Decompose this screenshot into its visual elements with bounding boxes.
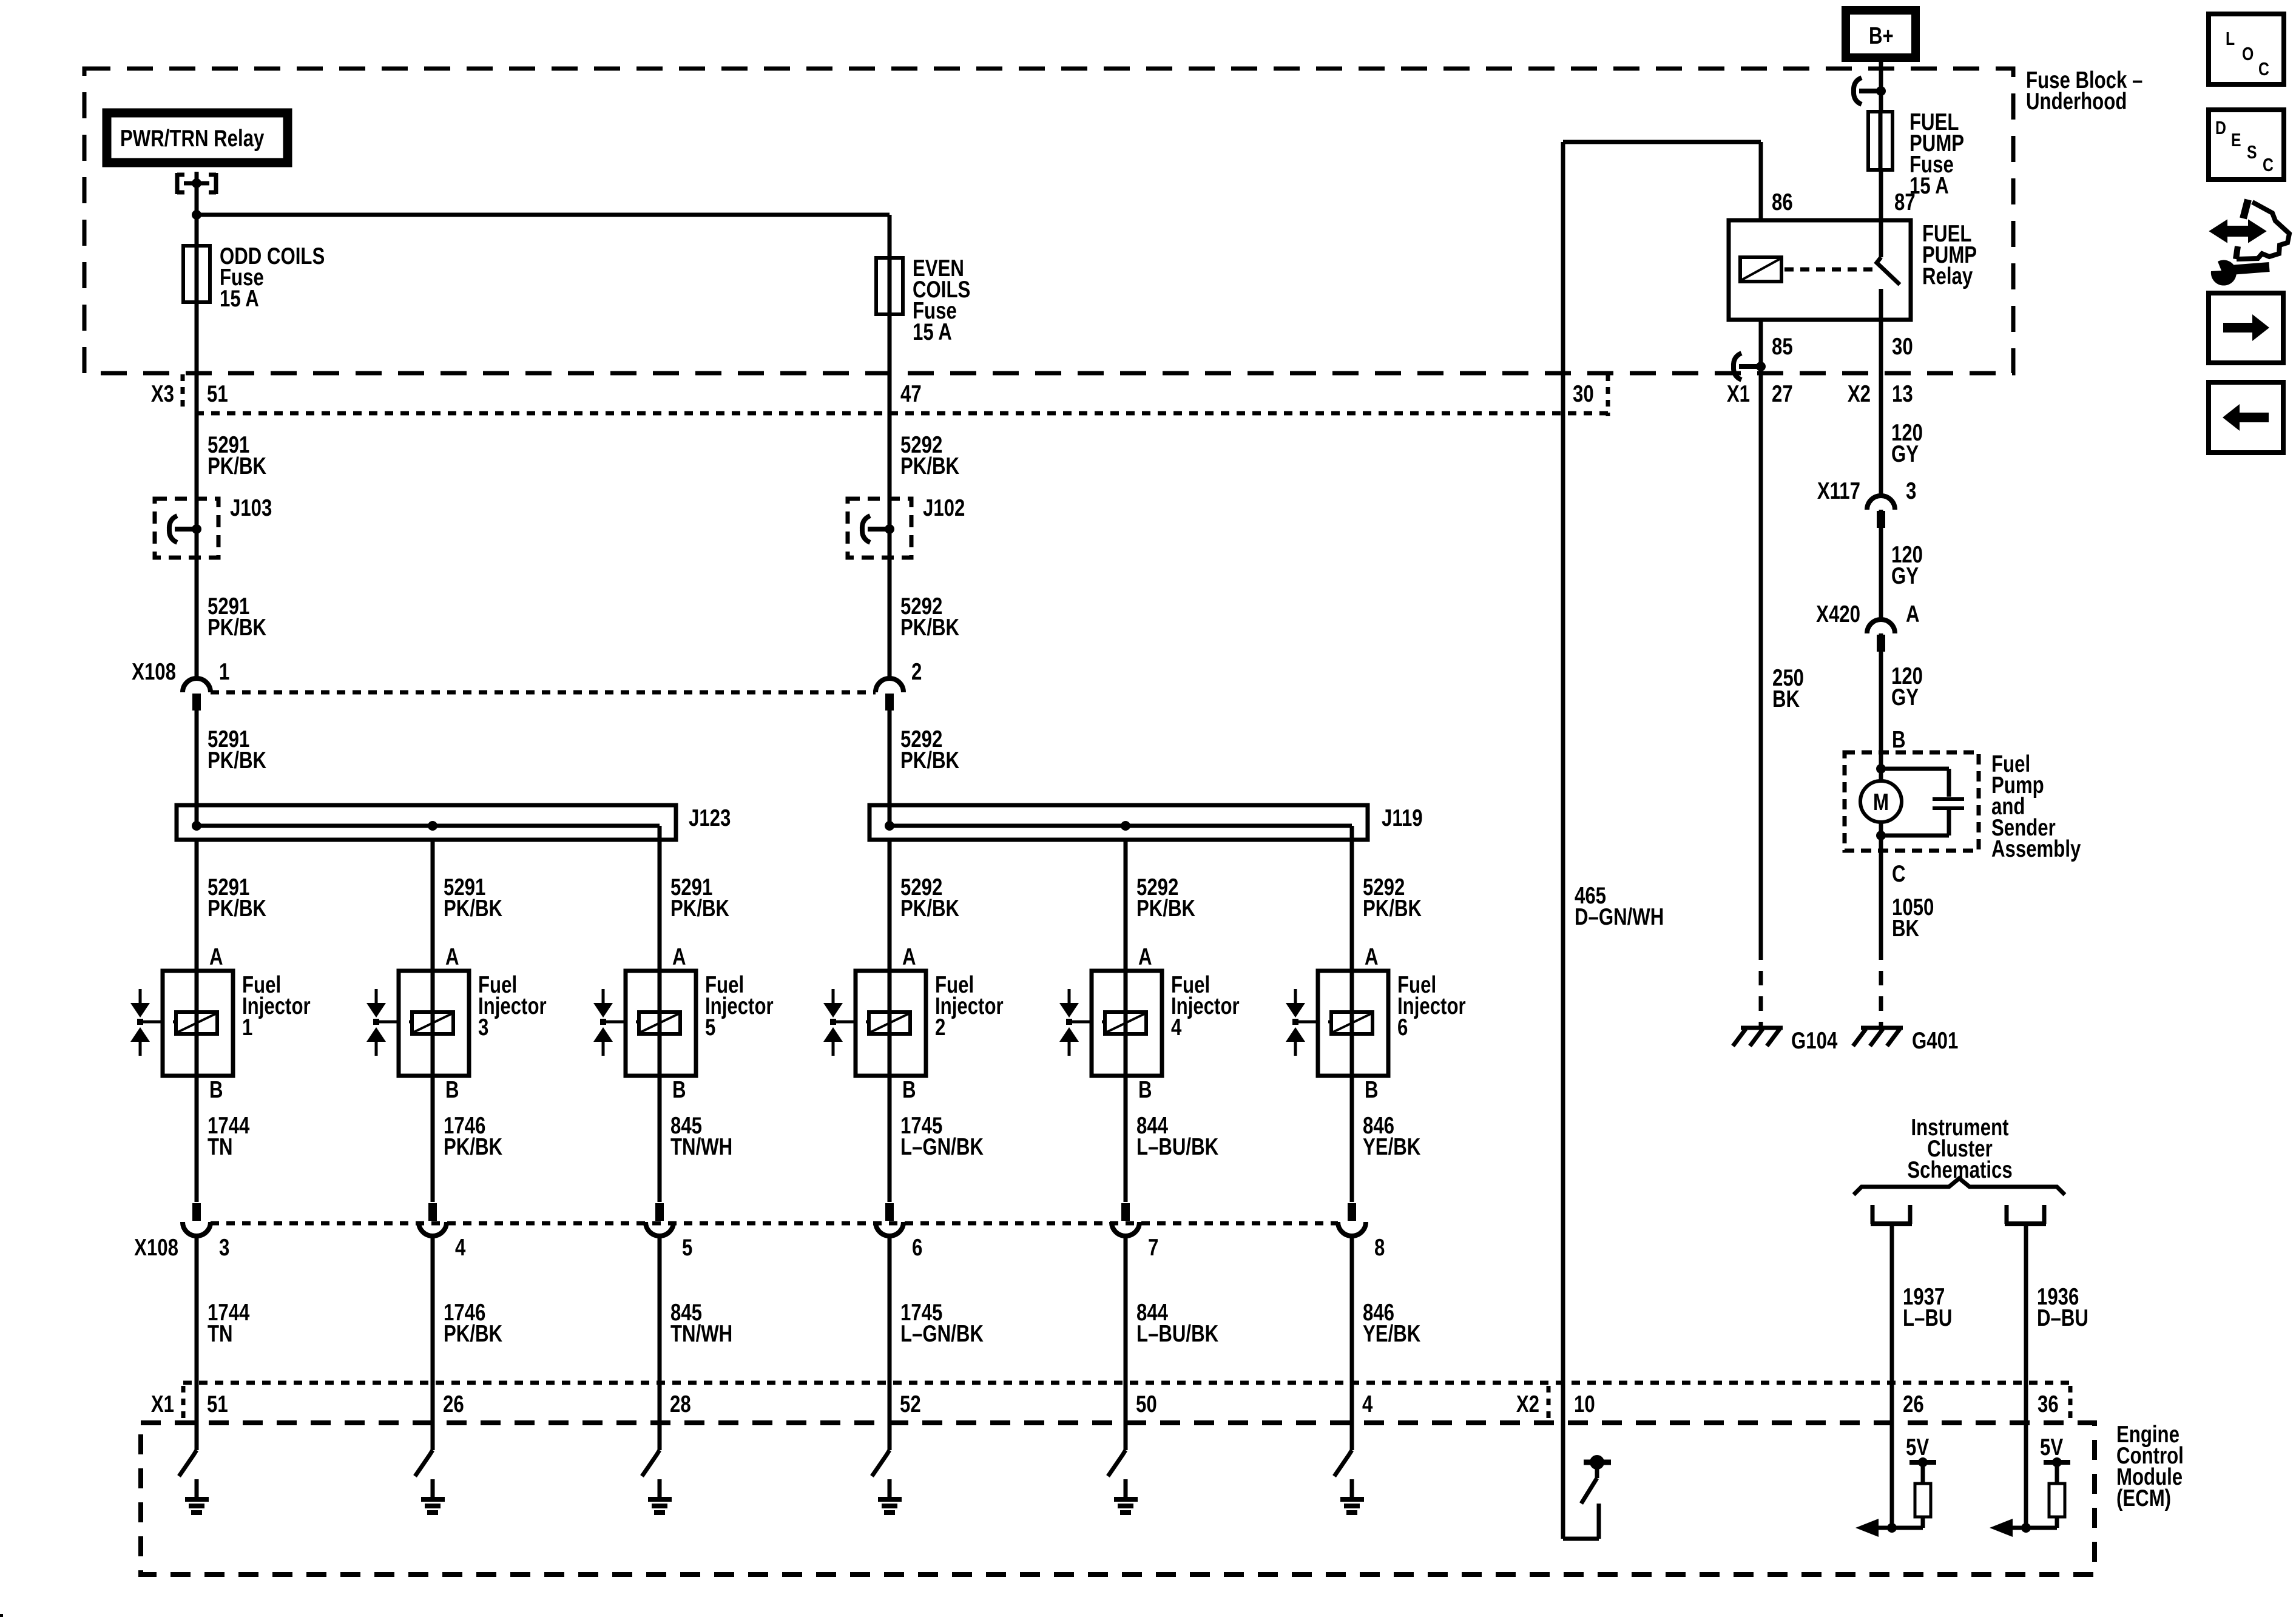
svg-text:52: 52 xyxy=(900,1391,921,1417)
ground lead dashes G401 xyxy=(1879,971,1883,1027)
PWR/TRN relay coil terminal xyxy=(175,173,180,194)
svg-text:8: 8 xyxy=(1374,1235,1385,1261)
svg-text:87: 87 xyxy=(1894,189,1916,215)
svg-text:TN/WH: TN/WH xyxy=(670,1134,732,1160)
fuel injector 5 coil xyxy=(639,1012,680,1034)
svg-text:28: 28 xyxy=(670,1391,691,1417)
svg-text:L–BU/BK: L–BU/BK xyxy=(1136,1134,1219,1160)
svg-text:B: B xyxy=(209,1077,223,1103)
ECM driver switch 6 xyxy=(1334,1450,1352,1476)
svg-text:J123: J123 xyxy=(689,805,731,831)
wire J119 drop inj6 xyxy=(1350,826,1354,840)
icon forward arrow box xyxy=(2209,293,2283,363)
wire splice to injector 5 xyxy=(658,840,662,971)
connector bump X108-5 xyxy=(646,1222,674,1236)
svg-text:13: 13 xyxy=(1892,381,1913,407)
svg-text:M: M xyxy=(1873,789,1889,815)
svg-text:X1: X1 xyxy=(151,1391,174,1417)
relay actuation dashed link xyxy=(1784,268,1872,272)
svg-text:B: B xyxy=(1365,1077,1379,1103)
relay switch lower contact xyxy=(1879,289,1883,373)
svg-text:X2: X2 xyxy=(1516,1391,1539,1417)
relay coil diagonal xyxy=(1742,259,1780,280)
ground symbol ECM driver 1 xyxy=(195,1479,199,1497)
fuel injector 5 wire through xyxy=(658,971,662,1076)
ground G104 xyxy=(1741,1026,1783,1030)
svg-text:27: 27 xyxy=(1772,381,1793,407)
icon back arrow xyxy=(2223,404,2269,431)
svg-text:O: O xyxy=(2242,43,2254,64)
svg-text:Relay: Relay xyxy=(1922,263,1973,289)
svg-text:J103: J103 xyxy=(230,495,272,521)
brace instrument cluster xyxy=(1854,1178,2065,1195)
fuel injector 4 wire through xyxy=(1124,971,1128,1076)
svg-text:15 A: 15 A xyxy=(913,319,952,345)
relay FUEL PUMP box xyxy=(1729,220,1911,320)
capacitor plates xyxy=(1933,797,1964,801)
connector bump X108-8 xyxy=(1338,1222,1366,1236)
wire J123 drop inj5 xyxy=(658,826,662,840)
wire splice to injector 1 xyxy=(195,840,199,971)
tick after 30 xyxy=(1606,374,1610,416)
svg-text:A: A xyxy=(209,944,223,970)
wire X108-2 to J119 xyxy=(888,711,892,826)
svg-text:3: 3 xyxy=(219,1235,229,1261)
svg-text:7: 7 xyxy=(1148,1235,1158,1261)
wire X108 to ECM pin 52 xyxy=(888,1236,892,1450)
fuel injector 4 body xyxy=(1092,971,1162,1076)
motor M circle xyxy=(1860,781,1902,822)
wire PWR/TRN to junction xyxy=(195,183,199,215)
ECM pin dotted line xyxy=(183,1381,2070,1385)
svg-text:L–GN/BK: L–GN/BK xyxy=(900,1321,984,1347)
svg-text:J119: J119 xyxy=(1382,805,1423,831)
connector bump X117 xyxy=(1867,496,1895,510)
wire splice to injector 3 xyxy=(431,840,435,971)
svg-text:26: 26 xyxy=(1903,1391,1924,1417)
tick X3 xyxy=(181,374,185,412)
svg-text:15 A: 15 A xyxy=(1909,173,1949,199)
svg-text:1: 1 xyxy=(242,1014,252,1041)
icon LOC box xyxy=(2209,14,2284,84)
wire 5291 fuse to X108 xyxy=(195,302,199,678)
svg-text:50: 50 xyxy=(1136,1391,1157,1417)
wire injector 5 to X108 xyxy=(658,1076,662,1202)
terminal clip J103 xyxy=(169,516,177,542)
relay switch lever xyxy=(1879,220,1883,257)
wire 1050 BK to ground xyxy=(1879,851,1883,960)
svg-text:PK/BK: PK/BK xyxy=(444,1321,502,1347)
svg-text:PK/BK: PK/BK xyxy=(670,896,729,922)
terminal clip at relay pin 85 xyxy=(1734,353,1741,380)
splice J102 box xyxy=(848,499,911,558)
icon DESC box xyxy=(2209,110,2284,180)
svg-text:26: 26 xyxy=(443,1391,464,1417)
ground symbol ECM driver 6 xyxy=(1350,1479,1354,1497)
svg-text:L–BU/BK: L–BU/BK xyxy=(1136,1321,1219,1347)
wire fuse to relay pin 87 xyxy=(1879,170,1883,220)
svg-text:D: D xyxy=(2215,117,2226,138)
wire X420 to fuel pump xyxy=(1879,653,1883,782)
svg-text:PK/BK: PK/BK xyxy=(1363,896,1422,922)
fuel injector 5 valve symbol xyxy=(602,989,605,1003)
svg-text:3: 3 xyxy=(1906,478,1916,504)
icon forward arrow xyxy=(2223,314,2269,341)
svg-text:PWR/TRN Relay: PWR/TRN Relay xyxy=(120,126,265,152)
wire X108 to ECM pin 51 xyxy=(195,1236,199,1450)
svg-text:X108: X108 xyxy=(132,659,176,685)
ground lead dashes G104 xyxy=(1759,971,1763,1027)
svg-text:BK: BK xyxy=(1892,916,1919,942)
svg-text:L–BU: L–BU xyxy=(1903,1305,1952,1331)
connector row dotted line X3 xyxy=(195,411,1608,416)
svg-text:A: A xyxy=(1906,601,1920,627)
fuel injector 1 coil diagonal xyxy=(178,1014,215,1032)
svg-text:PK/BK: PK/BK xyxy=(208,896,266,922)
wire injector 6 to X108 xyxy=(1350,1076,1354,1202)
relay PWR/TRN label box xyxy=(107,113,288,163)
connector symbol cluster 1937 xyxy=(1871,1205,1875,1224)
svg-text:E: E xyxy=(2231,129,2241,150)
tick X2 ECM xyxy=(1547,1386,1551,1420)
connector bump X108-7 xyxy=(1112,1222,1140,1236)
fuse FUEL PUMP 15A xyxy=(1879,112,1883,170)
splice pack J119 box xyxy=(869,805,1368,840)
svg-text:47: 47 xyxy=(900,381,922,407)
wire injector 1 to X108 xyxy=(195,1076,199,1202)
junction dot odd/even feed xyxy=(192,210,201,220)
connector bump X108-2 xyxy=(876,678,903,692)
svg-text:5V: 5V xyxy=(2040,1434,2064,1460)
fuel injector 2 wire through xyxy=(888,971,892,1076)
fuel injector 3 wire through xyxy=(431,971,435,1076)
fuel injector 2 coil diagonal xyxy=(871,1014,908,1032)
svg-text:86: 86 xyxy=(1772,189,1793,215)
ECM fuel pump driver switch xyxy=(1584,1460,1611,1465)
fuse EVEN COILS 15A xyxy=(888,258,892,314)
fuel injector 2 body xyxy=(856,971,926,1076)
power terminal B+ box xyxy=(1846,10,1916,58)
wire 1936 D-BU xyxy=(2024,1224,2028,1528)
ground symbol ECM driver 5 xyxy=(658,1479,662,1497)
junction dot PWR/TRN output xyxy=(192,178,201,188)
svg-text:10: 10 xyxy=(1574,1391,1595,1417)
svg-text:2: 2 xyxy=(911,659,922,685)
wire 250 BK to ground xyxy=(1759,373,1763,960)
connector bump X108-4 xyxy=(419,1222,447,1236)
svg-text:D–GN/WH: D–GN/WH xyxy=(1575,904,1664,930)
svg-text:TN/WH: TN/WH xyxy=(670,1321,732,1347)
junction dot J119 inj4 xyxy=(1121,821,1130,831)
ECM driver switch 3 xyxy=(415,1450,433,1476)
svg-text:4: 4 xyxy=(1362,1391,1373,1417)
icon back arrow box xyxy=(2209,382,2283,453)
svg-text:BK: BK xyxy=(1772,686,1800,712)
icon wrench xyxy=(2211,260,2237,286)
svg-text:PK/BK: PK/BK xyxy=(1136,896,1195,922)
fuel injector 3 body xyxy=(399,971,469,1076)
fuel injector 6 coil xyxy=(1331,1012,1373,1034)
svg-text:A: A xyxy=(902,944,916,970)
wire B+ down to fuel pump fuse xyxy=(1879,58,1883,112)
wire injector 3 to X108 xyxy=(431,1076,435,1202)
svg-text:L–GN/BK: L–GN/BK xyxy=(900,1134,984,1160)
svg-text:X117: X117 xyxy=(1817,478,1860,504)
wire injector 2 to X108 xyxy=(888,1076,892,1202)
ECM driver switch 5 xyxy=(642,1450,660,1476)
terminal clip at B+ feed xyxy=(1854,78,1862,104)
wire junction to EVEN COILS drop xyxy=(197,213,890,217)
fuel injector 5 coil diagonal xyxy=(641,1014,678,1032)
ground G401 xyxy=(1861,1026,1903,1030)
svg-text:S: S xyxy=(2247,141,2257,162)
svg-text:PK/BK: PK/BK xyxy=(444,1134,502,1160)
fuse block underhood box xyxy=(84,69,2013,373)
svg-text:C: C xyxy=(2258,58,2269,79)
svg-text:1: 1 xyxy=(219,659,229,685)
svg-text:TN: TN xyxy=(208,1134,233,1160)
fuel injector 3 coil xyxy=(412,1012,453,1034)
wire splice to injector 2 xyxy=(888,840,892,971)
splice bus J123 xyxy=(197,824,660,828)
svg-text:G104: G104 xyxy=(1791,1028,1838,1054)
svg-text:Underhood: Underhood xyxy=(2026,89,2127,115)
svg-text:Assembly: Assembly xyxy=(1991,836,2081,862)
splice pack J123 box xyxy=(177,805,676,840)
wire splice to injector 6 xyxy=(1350,840,1354,971)
fuse ODD COILS 15A xyxy=(195,246,199,302)
svg-text:GY: GY xyxy=(1891,441,1919,467)
svg-text:A: A xyxy=(1365,944,1379,970)
svg-text:X1: X1 xyxy=(1727,381,1750,407)
ECM driver switch 1 xyxy=(179,1450,197,1476)
wire 120 GY fuse block to X117 xyxy=(1879,373,1883,678)
page corner speck xyxy=(0,1614,3,1617)
ECM box xyxy=(141,1423,2095,1575)
svg-text:TN: TN xyxy=(208,1321,233,1347)
fuel injector 1 wire through xyxy=(195,971,199,1076)
fuel injector 1 body xyxy=(163,971,233,1076)
svg-text:5: 5 xyxy=(682,1235,692,1261)
svg-text:L: L xyxy=(2226,28,2235,49)
svg-text:D–BU: D–BU xyxy=(2037,1305,2088,1331)
wire X108 to ECM pin 26 xyxy=(431,1236,435,1450)
wire pump top to capacitor xyxy=(1881,767,1949,771)
wire junction to ODD COILS fuse xyxy=(195,215,199,246)
fuel injector 1 coil xyxy=(176,1012,217,1034)
wire X108 to ECM pin 28 xyxy=(658,1236,662,1450)
ECM driver switch 2 xyxy=(872,1450,890,1476)
svg-text:B: B xyxy=(672,1077,686,1103)
wire X108 to ECM pin 50 xyxy=(1124,1236,1128,1450)
wire 1937 L-BU xyxy=(1890,1224,1894,1528)
fuel injector 3 coil diagonal xyxy=(414,1014,451,1032)
fuel injector 1 valve symbol xyxy=(139,989,142,1003)
svg-text:4: 4 xyxy=(1171,1014,1182,1041)
splice bus J119 xyxy=(890,824,1352,828)
svg-text:B: B xyxy=(445,1077,459,1103)
wire splice to injector 4 xyxy=(1124,840,1128,971)
svg-text:B: B xyxy=(1892,727,1906,753)
svg-text:B: B xyxy=(902,1077,916,1103)
svg-text:36: 36 xyxy=(2038,1391,2059,1417)
svg-text:PK/BK: PK/BK xyxy=(208,748,266,774)
wire pump bottom out xyxy=(1879,822,1883,851)
wire X108 to ECM pin 4 xyxy=(1350,1236,1354,1450)
svg-text:PK/BK: PK/BK xyxy=(444,896,502,922)
svg-text:85: 85 xyxy=(1772,334,1793,360)
svg-text:A: A xyxy=(1138,944,1152,970)
relay coil xyxy=(1740,257,1781,282)
svg-text:G401: G401 xyxy=(1912,1028,1958,1054)
wire capacitor to pump bottom xyxy=(1947,808,1951,836)
fuel injector 6 coil diagonal xyxy=(1333,1014,1371,1032)
tick after 36 ECM xyxy=(2068,1386,2073,1420)
svg-text:3: 3 xyxy=(478,1014,488,1041)
fuel pump assembly box xyxy=(1845,752,1979,851)
svg-text:51: 51 xyxy=(207,381,228,407)
svg-text:C: C xyxy=(2263,154,2274,175)
svg-text:PK/BK: PK/BK xyxy=(900,896,959,922)
svg-text:PK/BK: PK/BK xyxy=(900,453,959,479)
connector row dotted line X108 row1 xyxy=(211,690,876,695)
ground symbol ECM driver 3 xyxy=(431,1479,435,1497)
fuel injector 4 coil diagonal xyxy=(1107,1014,1144,1032)
svg-text:YE/BK: YE/BK xyxy=(1363,1321,1421,1347)
fuel injector 4 valve symbol xyxy=(1068,989,1071,1003)
ECM driver switch 4 xyxy=(1108,1450,1126,1476)
connector bump X108-6 xyxy=(876,1222,903,1236)
splice J103 box xyxy=(155,499,218,558)
ECM fuel pump driver contact hook xyxy=(1563,1537,1599,1541)
fuel injector 6 valve symbol xyxy=(1294,989,1297,1003)
svg-text:5: 5 xyxy=(705,1014,715,1041)
svg-text:PK/BK: PK/BK xyxy=(900,748,959,774)
junction dot J119 inj2 xyxy=(885,821,894,831)
fuel injector 6 wire through xyxy=(1350,971,1354,1076)
wire 465 feed corner to relay pin 86 xyxy=(1561,142,1565,373)
svg-text:30: 30 xyxy=(1573,381,1594,407)
svg-text:GY: GY xyxy=(1891,563,1919,589)
connector symbol cluster 1936 xyxy=(2005,1205,2009,1224)
svg-text:YE/BK: YE/BK xyxy=(1363,1134,1421,1160)
svg-text:PK/BK: PK/BK xyxy=(900,615,959,641)
svg-text:X420: X420 xyxy=(1816,601,1860,627)
svg-text:PK/BK: PK/BK xyxy=(208,615,266,641)
svg-text:6: 6 xyxy=(912,1235,922,1261)
wire injector 4 to X108 xyxy=(1124,1076,1128,1202)
junction dot J123 inj3 xyxy=(428,821,437,831)
wire X117 to X420 xyxy=(1879,529,1883,619)
wire relay pin 85 down xyxy=(1759,320,1763,373)
wire drop to EVEN COILS fuse xyxy=(888,215,892,258)
icon hand outline xyxy=(2243,200,2248,218)
wire 5292 fuse to X108 xyxy=(888,314,892,678)
tick X1 ECM xyxy=(181,1386,186,1420)
svg-text:C: C xyxy=(1892,861,1906,887)
wire 465 D-GN/WH block to ECM xyxy=(1561,373,1565,1539)
svg-text:PK/BK: PK/BK xyxy=(208,453,266,479)
svg-text:6: 6 xyxy=(1397,1014,1408,1041)
svg-text:GY: GY xyxy=(1891,684,1919,711)
ground symbol ECM driver 2 xyxy=(888,1479,892,1497)
svg-text:2: 2 xyxy=(935,1014,945,1041)
svg-text:X108: X108 xyxy=(134,1235,178,1261)
svg-text:B: B xyxy=(1138,1077,1152,1103)
fuel injector 2 valve symbol xyxy=(832,989,835,1003)
svg-text:51: 51 xyxy=(207,1391,228,1417)
fuel injector 2 coil xyxy=(869,1012,910,1034)
terminal clip J102 xyxy=(862,516,870,542)
fuel injector 5 body xyxy=(626,971,696,1076)
svg-text:J102: J102 xyxy=(923,495,965,521)
svg-text:B+: B+ xyxy=(1869,23,1894,49)
connector bump X108-1 xyxy=(183,678,211,692)
svg-text:A: A xyxy=(672,944,686,970)
svg-text:X2: X2 xyxy=(1848,381,1871,407)
icon hand double arrow xyxy=(2211,221,2264,241)
svg-text:X3: X3 xyxy=(151,381,174,407)
svg-text:(ECM): (ECM) xyxy=(2116,1485,2171,1511)
connector bump X108-3 xyxy=(183,1222,211,1236)
svg-text:5V: 5V xyxy=(1906,1434,1930,1460)
svg-text:30: 30 xyxy=(1892,334,1913,360)
junction dot pump top xyxy=(1876,764,1886,774)
svg-text:4: 4 xyxy=(455,1235,466,1261)
fuel injector 3 valve symbol xyxy=(375,989,378,1003)
connector bump X420 xyxy=(1867,619,1895,633)
fuel injector 6 body xyxy=(1318,971,1388,1076)
connector row dotted line X108 row2 xyxy=(211,1221,1338,1226)
junction dot J123 inj1 xyxy=(192,821,201,831)
ground symbol ECM driver 4 xyxy=(1124,1479,1128,1497)
svg-text:15 A: 15 A xyxy=(220,286,259,312)
junction dot pump bottom xyxy=(1876,831,1886,840)
fuel injector 4 coil xyxy=(1105,1012,1146,1034)
wire X108-1 to J123 xyxy=(195,711,199,826)
svg-text:A: A xyxy=(445,944,459,970)
